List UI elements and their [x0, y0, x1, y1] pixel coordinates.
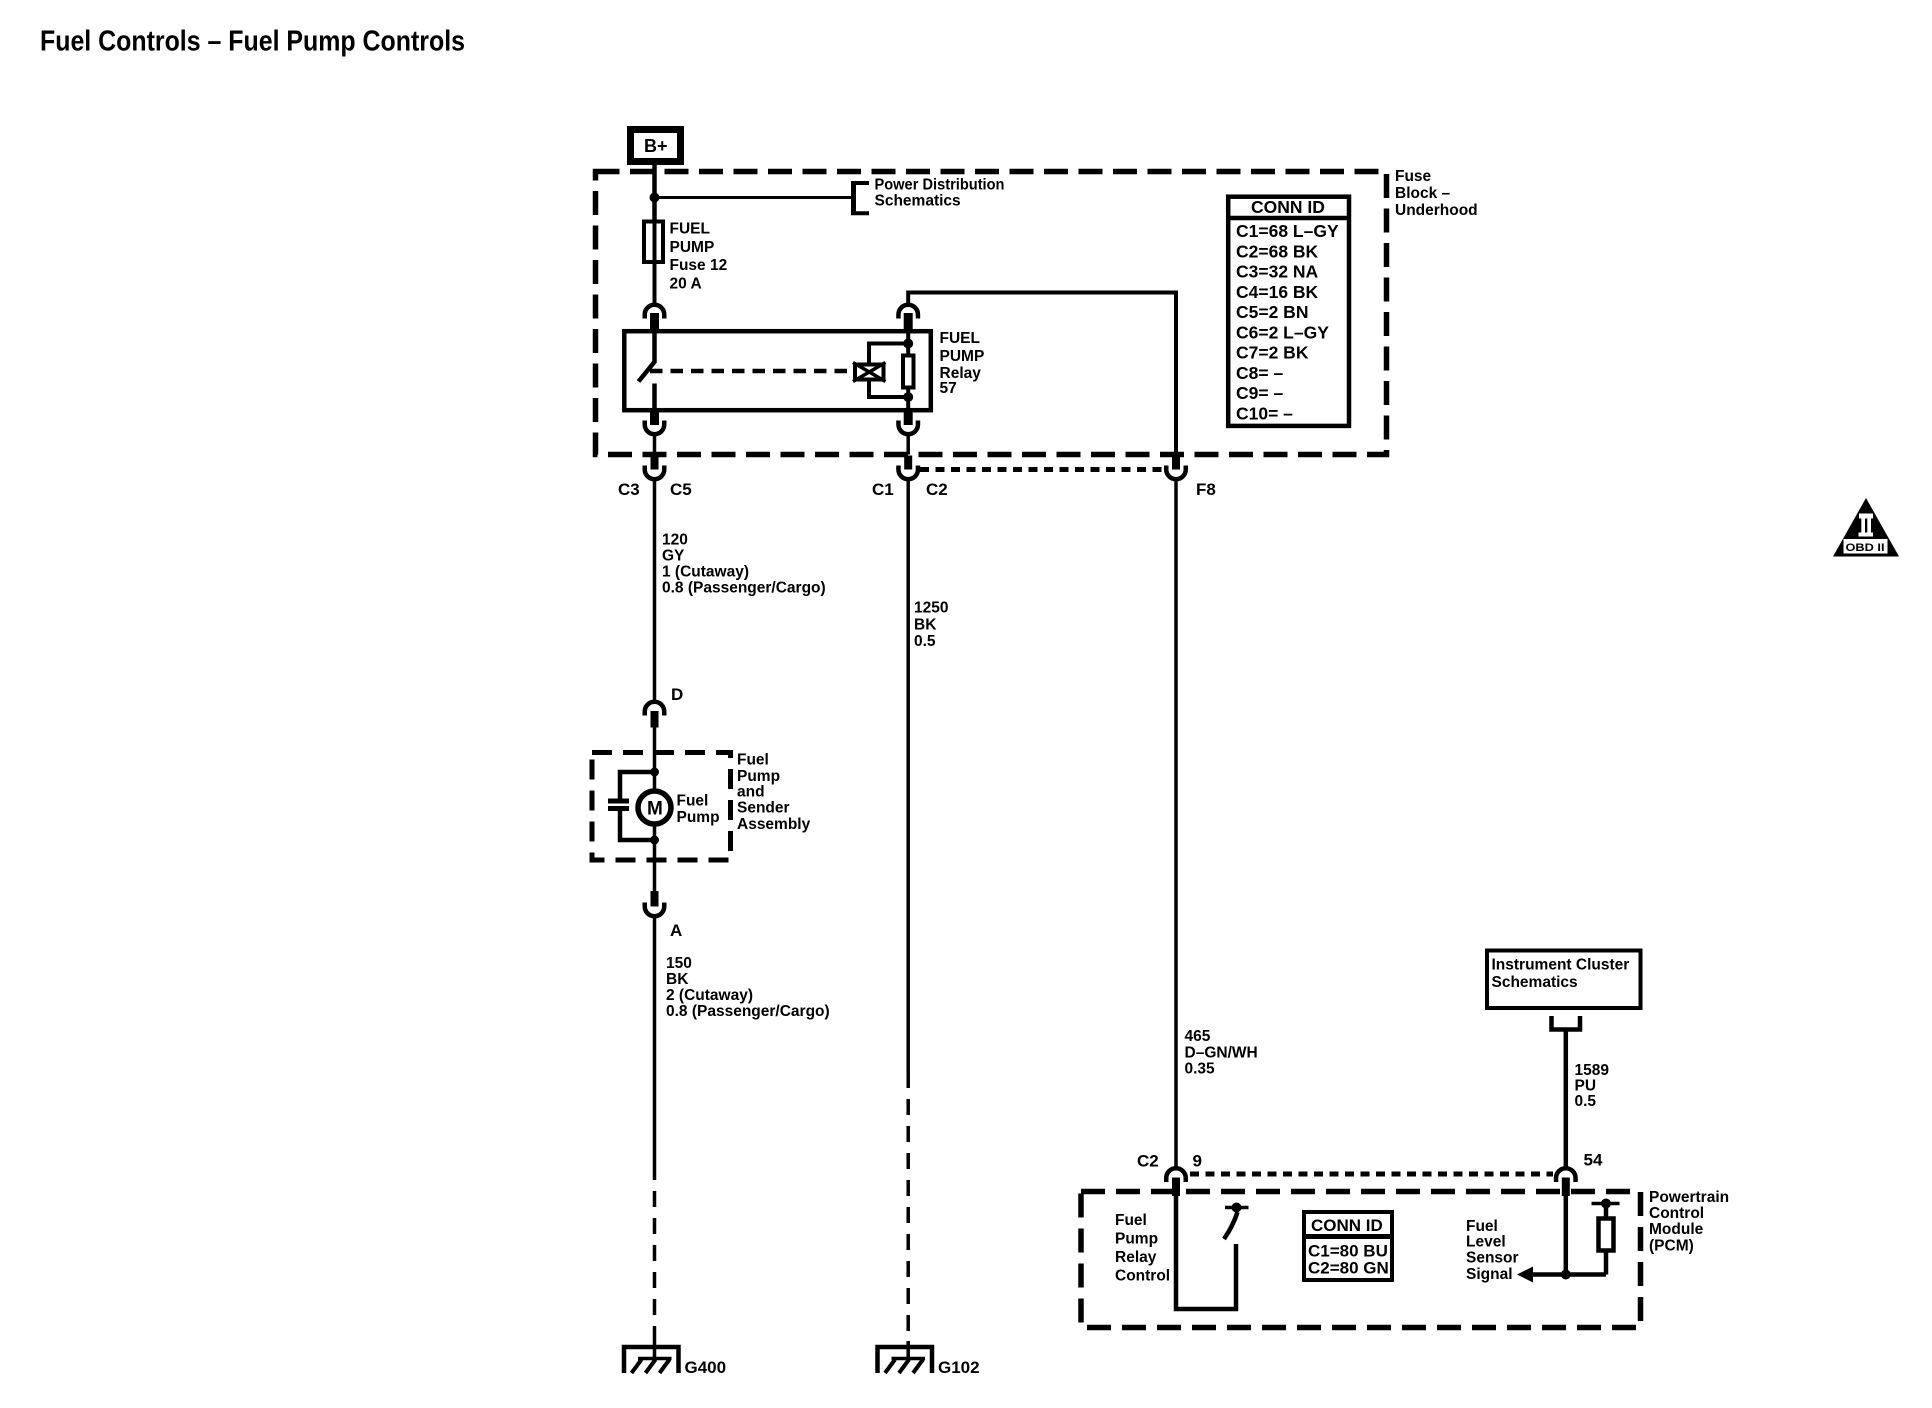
svg-text:PUMP: PUMP: [940, 348, 985, 365]
wire: dashed continuation to G400: [653, 1164, 657, 1341]
svg-text:C8= –: C8= –: [1236, 363, 1283, 383]
wire: fuel pump relay control path inside PCM: [1176, 1196, 1236, 1309]
ground G102: [878, 1347, 933, 1373]
switch pivot bar with node: [1225, 1203, 1249, 1213]
svg-text:0.8 (Passenger/Cargo): 0.8 (Passenger/Cargo): [666, 1003, 830, 1020]
svg-text:0.5: 0.5: [914, 633, 936, 650]
label: C1: [872, 480, 894, 499]
label: pin D: [671, 685, 683, 704]
svg-text:1589: 1589: [1575, 1062, 1610, 1079]
svg-text:Level: Level: [1466, 1234, 1506, 1251]
svg-text:20 A: 20 A: [670, 276, 702, 293]
wire: junction up to relay box top: [906, 327, 910, 344]
terminal bar with node (resistor top): [1592, 1199, 1620, 1209]
wire: C5 down (120 GY circuit): [653, 480, 657, 701]
svg-text:Sender: Sender: [737, 800, 790, 817]
svg-text:D–GN/WH: D–GN/WH: [1185, 1045, 1258, 1062]
svg-text:FUEL: FUEL: [670, 221, 710, 238]
svg-text:1250: 1250: [914, 600, 948, 617]
label: C2: [926, 480, 948, 499]
Powertrain Control Module dashed box: [1081, 1192, 1641, 1328]
svg-text:9: 9: [1193, 1152, 1202, 1171]
svg-text:Fuse 12: Fuse 12: [670, 257, 728, 274]
svg-text:Schematics: Schematics: [1492, 974, 1578, 991]
svg-text:C2: C2: [926, 480, 948, 499]
svg-text:PU: PU: [1575, 1078, 1597, 1095]
svg-text:C4=16 BK: C4=16 BK: [1236, 282, 1319, 302]
wire: 150 BK down from pin A: [653, 917, 657, 1164]
svg-text:M: M: [647, 799, 663, 820]
label: wire 120 GY: [662, 532, 826, 597]
node: sensor signal junction: [1561, 1270, 1571, 1280]
svg-text:0.5: 0.5: [1575, 1093, 1597, 1110]
svg-text:GY: GY: [662, 548, 685, 565]
svg-text:57: 57: [940, 380, 957, 397]
svg-text:Control: Control: [1115, 1268, 1170, 1285]
battery feed B+: [631, 130, 681, 162]
svg-text:Fuse: Fuse: [1395, 168, 1432, 185]
svg-text:C5: C5: [670, 480, 692, 499]
label: C3: [618, 480, 640, 499]
svg-text:C1=68 L–GY: C1=68 L–GY: [1236, 221, 1339, 241]
connector pin: relay 86 top-left (arc + stub): [645, 305, 665, 331]
wire: into ground symbol: [906, 1341, 910, 1358]
wire: 1589 PU from instrument cluster: [1564, 1030, 1569, 1168]
svg-text:Fuel: Fuel: [1466, 1218, 1498, 1235]
label: wire 1250 BK: [914, 600, 948, 651]
dashed mechanical link switch-to-coil: [650, 369, 853, 374]
svg-text:C2: C2: [1137, 1152, 1159, 1171]
label: Fuel Pump Relay Control: [1115, 1212, 1170, 1285]
Fuel Pump and Sender Assembly dashed box: [592, 753, 731, 861]
node: motor top junction: [650, 768, 659, 777]
svg-text:B+: B+: [644, 136, 668, 156]
bracket: power distribution schematics callout: [851, 182, 869, 215]
svg-text:FUEL: FUEL: [940, 330, 980, 347]
svg-text:Fuel: Fuel: [677, 793, 709, 810]
wire: coil bottom lead: [869, 382, 908, 398]
svg-text:Block –: Block –: [1395, 185, 1451, 202]
svg-text:(PCM): (PCM): [1649, 1238, 1694, 1255]
svg-text:C2=80 GN: C2=80 GN: [1308, 1259, 1389, 1278]
svg-text:Powertrain: Powertrain: [1649, 1189, 1729, 1206]
title: Fuel Controls - Fuel Pump Controls: [40, 26, 465, 58]
wire: motor junction to assembly edge: [653, 840, 657, 894]
connector F8 at fuse block exit (stub + arc): [1166, 456, 1186, 480]
svg-text:Sensor: Sensor: [1466, 1250, 1519, 1267]
wire: bottom junction down to relay box bottom: [906, 397, 910, 413]
svg-text:Fuel Controls – Fuel Pump Cont: Fuel Controls – Fuel Pump Controls: [40, 26, 465, 58]
connector pin D (arc + stub): [645, 702, 665, 728]
svg-text:G102: G102: [938, 1358, 980, 1377]
label: FUEL PUMP Fuse 12 20 A: [670, 221, 728, 293]
svg-text:OBD II: OBD II: [1846, 542, 1885, 554]
Fuse Block - Underhood dashed box: [596, 172, 1387, 455]
svg-text:BK: BK: [914, 617, 937, 634]
svg-text:Relay: Relay: [1115, 1249, 1157, 1266]
motor M1 fuel pump: [638, 791, 671, 824]
wire: tap to power distribution bracket: [655, 196, 854, 199]
svg-text:Pump: Pump: [677, 809, 720, 826]
wire: resistor top to junction: [906, 344, 910, 354]
relay K57 box: [624, 331, 931, 410]
connector pin: relay 85 top-right (arc + stub): [898, 305, 918, 331]
svg-text:CONN ID: CONN ID: [1251, 197, 1325, 217]
label: pin 54 (PCM): [1584, 1151, 1603, 1170]
svg-text:Control: Control: [1649, 1205, 1704, 1222]
svg-text:Module: Module: [1649, 1221, 1704, 1238]
connector C1/C2 at fuse block exit (stub + arc): [898, 456, 918, 480]
wire: 54 pin down to sensor node: [1564, 1196, 1569, 1275]
label: Fuel Pump and Sender Assembly: [737, 752, 811, 834]
connector C3/C5 at fuse block exit (stub + arc): [645, 456, 665, 480]
svg-text:and: and: [737, 784, 765, 801]
svg-text:C3: C3: [618, 480, 640, 499]
label: G400: [685, 1358, 727, 1377]
wire: relay coil pin up and over to F8: [908, 293, 1176, 456]
svg-text:Underhood: Underhood: [1395, 202, 1478, 219]
svg-text:0.35: 0.35: [1185, 1061, 1216, 1078]
svg-text:Power Distribution: Power Distribution: [875, 177, 1005, 194]
bracket: instrument cluster continuation: [1552, 1016, 1581, 1030]
svg-text:PUMP: PUMP: [670, 239, 715, 256]
connector pin: relay 30 bottom-left (stub + arc): [645, 411, 665, 435]
svg-text:A: A: [670, 921, 682, 940]
wire: through fuse: [653, 221, 657, 305]
svg-text:Instrument Cluster: Instrument Cluster: [1492, 957, 1630, 974]
connector pin 54 into PCM (arc + stub): [1556, 1168, 1576, 1196]
node: coil/resistor bottom junction: [903, 392, 913, 402]
wire: F8 down (465 D-GN/WH circuit): [1174, 480, 1178, 1168]
svg-text:CONN ID: CONN ID: [1311, 1216, 1383, 1235]
label: Powertrain Control Module (PCM): [1649, 1189, 1729, 1255]
wire: motor bottom lead: [653, 824, 657, 840]
CONN ID table (PCM): [1302, 1212, 1394, 1280]
wire: relay 30 pin to fuse block edge: [653, 435, 657, 455]
relay switch contact (top lead): [652, 331, 657, 361]
wire: motor top lead: [653, 772, 657, 791]
wire: relay 87 pin to fuse block edge: [906, 435, 910, 455]
relay coil (box with X): [853, 363, 886, 382]
svg-text:D: D: [671, 685, 683, 704]
connector pin: relay 87 bottom-right (stub + arc): [898, 411, 918, 435]
svg-text:Signal: Signal: [1466, 1266, 1513, 1283]
svg-text:C3=32 NA: C3=32 NA: [1236, 262, 1319, 282]
svg-text:C6=2 L–GY: C6=2 L–GY: [1236, 322, 1329, 342]
svg-text:Pump: Pump: [737, 768, 780, 785]
svg-text:Fuel: Fuel: [1115, 1212, 1147, 1229]
svg-text:1 (Cutaway): 1 (Cutaway): [662, 564, 749, 581]
wire: B+ down to fuse: [652, 165, 657, 221]
resistor: PCM pull-up: [1599, 1219, 1614, 1251]
wire: C2 down (1250 BK circuit): [906, 480, 910, 1072]
label: Power Distribution Schematics: [875, 177, 1005, 210]
label: C5: [670, 480, 692, 499]
connector pin A (stub + arc): [645, 891, 665, 916]
fuse F12: [644, 222, 663, 263]
resistor: relay suppression resistor: [903, 356, 914, 388]
OBD II symbol: [1833, 498, 1899, 557]
label: Fuel Pump (motor): [677, 793, 720, 827]
Instrument Cluster Schematics box: [1487, 951, 1641, 1009]
svg-text:2 (Cutaway): 2 (Cutaway): [666, 987, 753, 1004]
wire: resistor bottom to junction: [906, 390, 910, 398]
svg-text:Pump: Pump: [1115, 1231, 1158, 1248]
dotted connector line C2 to 54: [1190, 1172, 1553, 1177]
label: Fuse Block - Underhood: [1395, 168, 1478, 219]
svg-text:BK: BK: [666, 971, 689, 988]
arrow: fuel level sensor signal: [1517, 1267, 1606, 1283]
svg-text:C7=2 BK: C7=2 BK: [1236, 343, 1309, 363]
svg-text:Assembly: Assembly: [737, 816, 811, 833]
svg-text:Schematics: Schematics: [875, 193, 961, 210]
label: F8: [1196, 480, 1216, 499]
CONN ID table (fuse block): [1226, 197, 1351, 426]
label: wire 465 D-GN/WH: [1185, 1028, 1258, 1078]
svg-text:C2=68 BK: C2=68 BK: [1236, 241, 1319, 261]
svg-text:Fuel: Fuel: [737, 752, 769, 769]
label: pin A: [670, 921, 682, 940]
relay switch blade: [639, 361, 656, 382]
label: G102: [938, 1358, 980, 1377]
svg-text:F8: F8: [1196, 480, 1216, 499]
label: pin 9 (PCM): [1193, 1152, 1202, 1171]
node: junction at power distribution tap: [650, 193, 660, 203]
wire: coil top lead: [869, 344, 908, 363]
wire: dashed continuation to G102: [906, 1072, 910, 1341]
connector pin C2/9 into PCM (arc + stub): [1166, 1168, 1186, 1196]
dotted connector line C2 to F8: [920, 467, 1164, 472]
wire: into ground symbol: [653, 1341, 657, 1358]
svg-text:54: 54: [1584, 1151, 1603, 1170]
svg-text:120: 120: [662, 532, 688, 549]
svg-text:C10= –: C10= –: [1236, 403, 1293, 423]
ground G400: [624, 1347, 679, 1373]
wire: resistor bottom lead: [1604, 1251, 1609, 1275]
svg-text:0.8 (Passenger/Cargo): 0.8 (Passenger/Cargo): [662, 580, 826, 597]
capacitor branch (suppression capacitor): [608, 772, 655, 840]
label: FUEL PUMP Relay 57: [940, 330, 985, 397]
svg-text:C1: C1: [872, 480, 894, 499]
wire: pin D into fuel pump assembly: [653, 727, 657, 772]
relay switch contact (bottom lead): [652, 384, 657, 413]
svg-text:150: 150: [666, 955, 692, 972]
label: wire 1589 PU: [1575, 1062, 1610, 1110]
label: wire 150 BK: [666, 955, 830, 1020]
svg-text:G400: G400: [685, 1358, 727, 1377]
switch: PCM relay driver blade: [1224, 1212, 1238, 1239]
svg-text:465: 465: [1185, 1028, 1211, 1045]
label: pin C2 (PCM): [1137, 1152, 1159, 1171]
svg-text:C9= –: C9= –: [1236, 383, 1283, 403]
label: Fuel Level Sensor Signal: [1466, 1218, 1519, 1283]
svg-text:C5=2 BN: C5=2 BN: [1236, 302, 1308, 322]
wire: resistor top lead: [1604, 1204, 1609, 1219]
node: motor bottom junction: [650, 836, 659, 845]
node: coil/resistor top junction: [903, 339, 913, 349]
